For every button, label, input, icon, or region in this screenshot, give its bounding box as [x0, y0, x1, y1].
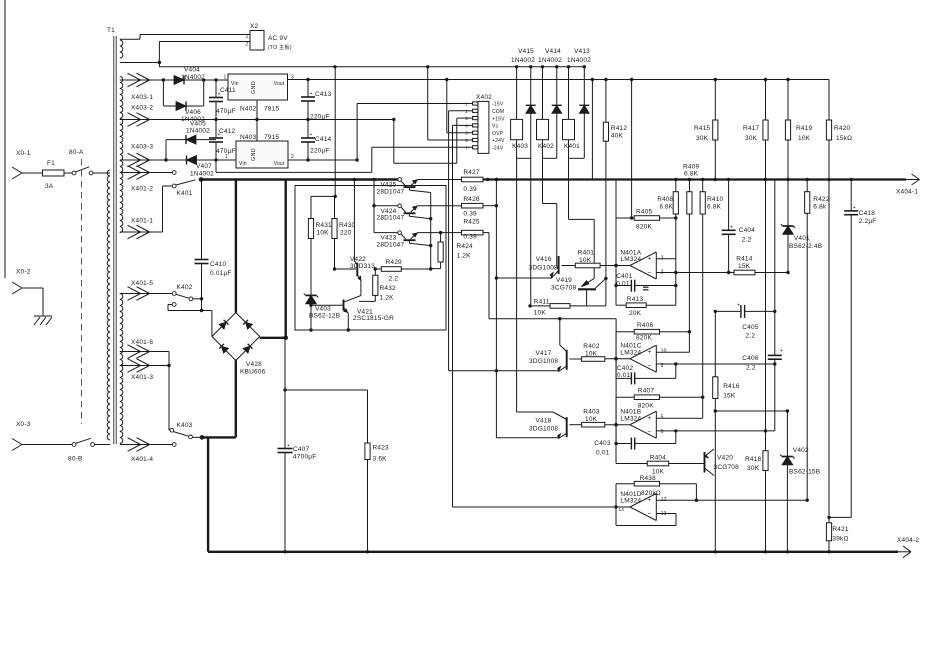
svg-text:C418: C418	[859, 210, 876, 217]
svg-text:K401: K401	[564, 143, 580, 150]
svg-text:R402: R402	[583, 343, 600, 350]
svg-text:1N4002: 1N4002	[181, 74, 205, 81]
svg-text:470µF: 470µF	[216, 148, 236, 155]
svg-text:+: +	[737, 303, 740, 309]
svg-text:1: 1	[246, 34, 249, 40]
svg-text:X401-4: X401-4	[131, 456, 153, 463]
svg-text:V416: V416	[536, 256, 552, 263]
svg-text:R406: R406	[637, 322, 654, 329]
svg-text:0.01µF: 0.01µF	[210, 270, 232, 277]
svg-text:X0-2: X0-2	[16, 269, 31, 276]
svg-text:R414: R414	[736, 256, 753, 263]
svg-text:C410: C410	[210, 261, 227, 268]
svg-text:C414: C414	[315, 136, 332, 143]
svg-text:V405: V405	[190, 121, 206, 128]
svg-text:R438: R438	[640, 475, 657, 482]
svg-text:C403: C403	[594, 440, 611, 447]
svg-text:40K: 40K	[611, 133, 624, 140]
svg-text:Vin: Vin	[239, 161, 247, 167]
svg-text:10K: 10K	[585, 416, 598, 423]
svg-text:3CG708: 3CG708	[714, 464, 740, 471]
svg-text:10K: 10K	[579, 257, 592, 264]
svg-text:+: +	[648, 497, 652, 504]
svg-text:R426: R426	[463, 196, 480, 203]
svg-text:−: −	[648, 269, 652, 276]
svg-text:+: +	[648, 415, 652, 422]
svg-text:R421: R421	[832, 526, 849, 533]
svg-text:C411: C411	[220, 87, 236, 94]
svg-text:470µF: 470µF	[216, 108, 236, 115]
svg-text:1N4002: 1N4002	[190, 171, 214, 178]
svg-text:V403: V403	[315, 306, 331, 313]
svg-text:X401-1: X401-1	[131, 218, 153, 225]
svg-text:3A: 3A	[45, 183, 54, 190]
svg-text:X0-3: X0-3	[16, 421, 31, 428]
svg-text:R427: R427	[463, 169, 480, 176]
svg-text:3DG1008: 3DG1008	[529, 265, 558, 272]
svg-text:KBU606: KBU606	[240, 369, 266, 376]
svg-text:OVP: OVP	[492, 131, 504, 137]
svg-text:+: +	[310, 91, 313, 97]
svg-text:K402: K402	[538, 143, 554, 150]
svg-text:2SC1815-GR: 2SC1815-GR	[353, 315, 394, 322]
svg-text:R407: R407	[638, 388, 655, 395]
svg-text:N403: N403	[240, 134, 257, 141]
svg-text:X401-2: X401-2	[131, 186, 153, 193]
svg-text:R425: R425	[463, 219, 480, 226]
svg-text:X403-1: X403-1	[131, 94, 153, 101]
svg-text:V417: V417	[536, 350, 552, 357]
svg-text:10K: 10K	[585, 350, 598, 357]
svg-text:(TO 主板): (TO 主板)	[268, 43, 292, 51]
svg-text:220µF: 220µF	[310, 148, 330, 155]
svg-text:1: 1	[224, 75, 227, 81]
svg-text:+: +	[853, 205, 856, 211]
svg-text:C405: C405	[742, 324, 759, 331]
svg-text:R420: R420	[834, 125, 851, 132]
svg-text:R423: R423	[373, 445, 390, 452]
svg-text:R411: R411	[534, 299, 550, 306]
svg-text:X403-2: X403-2	[131, 105, 153, 112]
svg-text:BS62-12B: BS62-12B	[309, 313, 340, 320]
svg-text:0.39: 0.39	[463, 234, 477, 241]
svg-text:6: 6	[661, 429, 664, 435]
svg-text:80-A: 80-A	[69, 149, 84, 156]
svg-text:V420: V420	[717, 455, 733, 462]
svg-text:K402: K402	[177, 284, 193, 291]
svg-text:3DD313: 3DD313	[350, 263, 375, 270]
svg-text:V404: V404	[184, 67, 200, 74]
svg-text:1N4002: 1N4002	[567, 57, 591, 64]
svg-text:28D1047: 28D1047	[377, 188, 405, 195]
svg-text:X401-3: X401-3	[131, 374, 153, 381]
svg-text:X404-2: X404-2	[897, 537, 919, 544]
svg-text:220: 220	[340, 230, 352, 237]
svg-text:0.01: 0.01	[616, 281, 630, 288]
svg-text:C413: C413	[315, 91, 332, 98]
svg-text:R432: R432	[380, 285, 397, 292]
svg-text:V422: V422	[350, 256, 366, 263]
svg-text:R401: R401	[578, 250, 595, 257]
svg-text:30K: 30K	[696, 135, 709, 142]
svg-text:V418: V418	[536, 418, 552, 425]
svg-text:6.8k: 6.8k	[813, 204, 827, 211]
svg-text:N402: N402	[240, 106, 257, 113]
svg-text:X2: X2	[250, 23, 259, 30]
svg-text:3DG1008: 3DG1008	[529, 426, 558, 433]
svg-text:-24V: -24V	[492, 146, 504, 152]
svg-text:T1: T1	[107, 27, 115, 34]
svg-text:10K: 10K	[534, 310, 547, 317]
svg-text:10K: 10K	[317, 230, 330, 237]
svg-text:3.6K: 3.6K	[373, 456, 388, 463]
svg-text:20K: 20K	[629, 310, 642, 317]
svg-text:X403-3: X403-3	[131, 144, 153, 151]
svg-text:C406: C406	[742, 355, 759, 362]
svg-text:15kΩ: 15kΩ	[836, 135, 852, 142]
svg-text:R422: R422	[813, 196, 830, 203]
svg-text:Vs: Vs	[492, 124, 499, 130]
svg-text:Vout: Vout	[274, 81, 285, 87]
svg-text:39kΩ: 39kΩ	[832, 536, 848, 543]
svg-text:−: −	[648, 363, 652, 370]
svg-text:BS62-15B: BS62-15B	[789, 469, 820, 476]
svg-text:C404: C404	[739, 227, 756, 234]
svg-text:2: 2	[246, 42, 249, 48]
svg-text:2.2: 2.2	[389, 275, 399, 282]
svg-text:−: −	[648, 429, 652, 436]
svg-text:LM324: LM324	[620, 415, 641, 422]
svg-text:-15V: -15V	[492, 102, 504, 108]
svg-text:1N4002: 1N4002	[538, 57, 562, 64]
svg-text:+: +	[780, 348, 783, 354]
svg-text:1.2K: 1.2K	[457, 253, 472, 260]
svg-text:3DG1008: 3DG1008	[529, 358, 558, 365]
svg-text:15K: 15K	[723, 393, 736, 400]
svg-text:V413: V413	[574, 48, 590, 55]
svg-text:+: +	[648, 256, 652, 263]
svg-text:V414: V414	[545, 48, 561, 55]
svg-text:R417: R417	[743, 125, 760, 132]
svg-text:R408: R408	[657, 196, 673, 203]
svg-text:28D1047: 28D1047	[377, 242, 405, 249]
svg-text:R429: R429	[386, 259, 403, 266]
svg-text:C402: C402	[617, 365, 634, 372]
svg-text:820K: 820K	[638, 403, 654, 410]
svg-text:R416: R416	[723, 383, 740, 390]
svg-text:V406: V406	[185, 109, 201, 116]
svg-text:R405: R405	[636, 209, 653, 216]
svg-text:K401: K401	[177, 190, 193, 197]
svg-text:R431: R431	[316, 222, 333, 229]
svg-text:−: −	[648, 511, 652, 518]
svg-text:C407: C407	[293, 446, 310, 453]
svg-text:15K: 15K	[738, 263, 751, 270]
svg-text:LM324: LM324	[620, 349, 641, 356]
svg-text:R418: R418	[745, 456, 762, 463]
svg-text:K403: K403	[177, 422, 193, 429]
svg-text:LM324: LM324	[620, 498, 641, 505]
svg-text:2.2µF: 2.2µF	[859, 218, 877, 225]
svg-text:1N4002: 1N4002	[186, 128, 210, 135]
svg-text:0.39: 0.39	[463, 211, 477, 218]
svg-text:2.2: 2.2	[746, 365, 756, 372]
svg-text:R404: R404	[650, 455, 667, 462]
svg-text:0.01: 0.01	[596, 450, 610, 457]
svg-text:C401: C401	[616, 273, 633, 280]
svg-text:Vout: Vout	[274, 161, 285, 167]
svg-text:BS62-2.4B: BS62-2.4B	[789, 243, 822, 250]
svg-text:80-B: 80-B	[68, 456, 83, 463]
svg-text:0.39: 0.39	[463, 186, 477, 193]
svg-text:X402: X402	[476, 94, 492, 101]
svg-text:820kΩ: 820kΩ	[641, 490, 661, 497]
svg-text:V428: V428	[246, 361, 262, 368]
svg-text:R415: R415	[694, 125, 711, 132]
svg-text:7915: 7915	[264, 134, 279, 141]
svg-text:+: +	[287, 443, 290, 449]
svg-text:V419: V419	[556, 277, 572, 284]
svg-text:X404-1: X404-1	[896, 189, 918, 196]
svg-text:LM324: LM324	[620, 256, 641, 263]
svg-text:R419: R419	[796, 125, 813, 132]
svg-text:28D1047: 28D1047	[377, 215, 405, 222]
svg-text:+: +	[648, 349, 652, 356]
svg-text:2.2: 2.2	[746, 333, 756, 340]
svg-text:GND: GND	[251, 81, 257, 94]
svg-text:R410: R410	[707, 196, 724, 203]
svg-text:R424: R424	[457, 243, 474, 250]
svg-text:GND: GND	[251, 148, 257, 161]
svg-text:0.01: 0.01	[617, 372, 631, 379]
svg-text:220µF: 220µF	[310, 114, 330, 121]
svg-text:6.8K: 6.8K	[659, 204, 673, 211]
svg-text:4700µF: 4700µF	[293, 454, 316, 461]
svg-text:1N4002: 1N4002	[511, 57, 535, 64]
svg-text:30K: 30K	[745, 135, 758, 142]
svg-text:R403: R403	[583, 409, 600, 416]
svg-text:6.8K: 6.8K	[684, 171, 699, 178]
svg-text:1.2K: 1.2K	[380, 295, 395, 302]
svg-text:6.8K: 6.8K	[707, 204, 722, 211]
svg-text:C412: C412	[219, 128, 236, 135]
svg-text:5: 5	[661, 415, 664, 421]
svg-text:820K: 820K	[636, 335, 652, 342]
svg-text:+: +	[730, 224, 733, 230]
svg-text:R430: R430	[339, 222, 356, 229]
svg-text:V402: V402	[793, 447, 809, 454]
svg-text:+15V: +15V	[492, 116, 505, 122]
svg-text:R413: R413	[627, 296, 644, 303]
svg-text:2.2: 2.2	[742, 237, 752, 244]
svg-text:2: 2	[291, 154, 294, 160]
svg-text:R409: R409	[683, 164, 700, 171]
svg-text:10: 10	[661, 349, 667, 355]
svg-text:820K: 820K	[636, 224, 652, 231]
svg-text:7815: 7815	[264, 106, 279, 113]
svg-text:AC 9V: AC 9V	[268, 35, 288, 42]
svg-text:X401-6: X401-6	[131, 339, 153, 346]
svg-text:30K: 30K	[747, 465, 760, 472]
svg-text:V415: V415	[518, 48, 534, 55]
svg-text:X401-5: X401-5	[131, 280, 153, 287]
svg-text:K403: K403	[512, 143, 528, 150]
svg-text:V407: V407	[196, 163, 212, 170]
svg-text:14: 14	[619, 507, 625, 512]
svg-text:10K: 10K	[798, 135, 811, 142]
svg-text:X0-1: X0-1	[16, 150, 31, 157]
svg-text:F1: F1	[47, 160, 55, 167]
svg-text:+: +	[310, 132, 313, 138]
svg-text:R412: R412	[611, 125, 628, 132]
svg-text:13: 13	[661, 511, 667, 517]
svg-text:COM: COM	[492, 109, 504, 115]
svg-text:3CG708: 3CG708	[551, 285, 577, 292]
svg-text:+24V: +24V	[492, 138, 505, 144]
